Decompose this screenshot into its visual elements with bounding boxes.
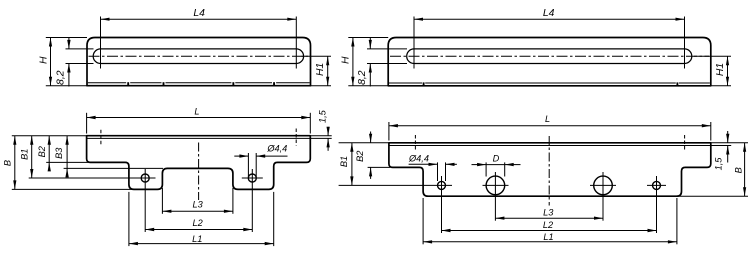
d4.4 dimension extension lines (right part) xyxy=(437,162,439,181)
dimension B1 (top view, left part) xyxy=(31,136,33,178)
plate center line (top view, right part) xyxy=(548,136,550,206)
left hole vertical centerline / L2 extension xyxy=(144,169,146,232)
dimension L4 (left side view) xyxy=(101,18,297,20)
dimension 8,2 (left side view, outside arrows) xyxy=(68,38,70,49)
H1 extension lines (right side view) xyxy=(694,55,731,57)
D hole left vertical centerline / L3 extension xyxy=(494,172,496,221)
L1 extension lines (top view, left part) xyxy=(128,192,130,246)
svg-text:L1: L1 xyxy=(192,234,202,244)
grip slot (right side view) xyxy=(407,49,692,64)
dimension Ø4,4 (top view, left part) xyxy=(234,155,248,157)
D hole right horizontal centerline xyxy=(590,184,616,186)
dimension L4 (right side view) xyxy=(414,18,685,20)
8,2 extension lines (slot top/bottom extended left) xyxy=(66,48,94,50)
B extension line bottom (right part) xyxy=(677,195,748,197)
small hole left (d4.4, right part) xyxy=(438,181,446,189)
L4 extension line right (x=684.5) xyxy=(684,17,686,69)
L3 extension lines (top view, left part) xyxy=(161,188,163,214)
svg-text:1,5: 1,5 xyxy=(317,109,327,123)
B3 extension line (middle bottom edge) xyxy=(64,167,163,169)
tab fold ticks (left side view) xyxy=(127,82,129,86)
L extension lines (top view, right part) xyxy=(388,122,390,141)
dimension D (top view, right part) xyxy=(472,164,487,166)
part body outline (side view, left part) xyxy=(87,38,311,86)
B1 extension line (hole center) xyxy=(29,177,156,179)
8,2 extension lines (right side view) xyxy=(367,48,407,50)
slot end tick right (x=296.2) xyxy=(295,129,297,146)
tab fold ticks (right side view) xyxy=(423,82,425,86)
B1 top extension line (right part) xyxy=(339,142,389,144)
H extension lines (left side view) xyxy=(46,37,87,39)
right hole horizontal centerline xyxy=(242,177,263,179)
H1 extension lines (left side view) xyxy=(302,55,332,57)
plate outline (top view, left part) xyxy=(87,136,311,190)
B1 extension line (hole center, right part) xyxy=(339,184,452,186)
dimension B3 (top view, left part) xyxy=(66,136,68,169)
svg-text:H1: H1 xyxy=(715,63,726,76)
B2 extension line (step bottom, right part) xyxy=(368,166,390,168)
dimension B2 (top view, left part) xyxy=(48,136,50,163)
dimension L (top view, right part) xyxy=(389,125,711,127)
svg-text:L: L xyxy=(545,114,550,124)
svg-text:L1: L1 xyxy=(543,232,553,242)
bottom edge fold line (right side view) xyxy=(389,82,422,84)
L1 extension lines (top view, right part) xyxy=(422,198,424,244)
L extension lines (top view, left part) xyxy=(86,113,88,134)
dimension L3 (top view, right part) xyxy=(495,217,603,219)
dimension L1 (top view, left part) xyxy=(129,243,274,245)
svg-text:8,2: 8,2 xyxy=(56,70,67,85)
svg-text:B2: B2 xyxy=(37,146,47,157)
small hole right (d4.4, right part) xyxy=(653,181,661,189)
svg-text:L2: L2 xyxy=(543,220,553,230)
dimension B (top view, right part) xyxy=(744,143,746,196)
svg-text:H1: H1 xyxy=(315,63,326,76)
1.5 offset edge line (top view, left part) xyxy=(87,137,311,139)
dimension B1 (top view, right part) xyxy=(351,143,353,186)
right hole vertical centerline / L2 extension xyxy=(251,169,253,232)
slot end tick left (x=415.4) xyxy=(414,135,416,151)
svg-text:B1: B1 xyxy=(339,156,349,167)
svg-text:L3: L3 xyxy=(192,200,203,210)
svg-text:B: B xyxy=(3,160,13,166)
d4.4 dimension extension lines (top view, left part) xyxy=(247,153,249,177)
1,5 extension lines (top view, right part) xyxy=(711,142,748,144)
plate center line (top view, left part) xyxy=(198,143,200,201)
dimension 8,2 (right side view, outside arrows) xyxy=(369,38,371,49)
slot centerline (left side view) xyxy=(89,55,309,57)
dimension L3 (top view, left part) xyxy=(162,210,233,212)
slot centerline (right side view) xyxy=(390,55,709,57)
svg-text:B1: B1 xyxy=(20,149,30,160)
H extension lines (right side view) xyxy=(348,37,388,39)
dimension L2 (top view, left part) xyxy=(145,229,252,231)
L4 extension line left (x=100.5) xyxy=(100,17,102,69)
dimension 1,5 (top view, left part, outside arrows) xyxy=(327,127,329,136)
svg-text:L2: L2 xyxy=(192,218,202,228)
plate outline (top view, right part) xyxy=(389,143,711,196)
hole right tab (d4.4) xyxy=(248,174,256,182)
dimension B (top view, left part) xyxy=(14,136,16,190)
svg-text:B3: B3 xyxy=(54,147,64,159)
svg-text:8,2: 8,2 xyxy=(357,70,368,85)
grip slot (left side view) xyxy=(93,49,303,64)
dimension H (left side view) xyxy=(50,38,52,86)
dimension L1 (top view, right part) xyxy=(423,241,677,243)
part body outline (side view, right part) xyxy=(388,38,711,86)
hole D left (right part) xyxy=(486,176,505,195)
L4 extension line right (x=296.3) xyxy=(295,17,297,69)
dimension L2 (top view, right part) xyxy=(442,230,657,232)
svg-text:Ø4,4: Ø4,4 xyxy=(408,154,429,164)
D hole left horizontal centerline xyxy=(483,184,509,186)
bottom edge fold line (left side view) xyxy=(88,82,126,84)
hole D right (right part) xyxy=(594,176,613,195)
svg-text:D: D xyxy=(493,154,500,164)
D dimension extension lines (right part) xyxy=(485,162,487,176)
dimension B2 (top view, right part, outside arrows) xyxy=(370,132,372,143)
dimension 1,5 (top view, right part, outside arrows) xyxy=(727,131,729,143)
svg-text:L: L xyxy=(194,107,199,117)
svg-text:L4: L4 xyxy=(193,8,205,19)
small hole right horizontal centerline xyxy=(647,184,666,186)
B extension lines (top view, left part) xyxy=(12,135,87,137)
1.5 offset edge line (top view, right part) xyxy=(389,145,711,147)
svg-text:L4: L4 xyxy=(543,8,555,19)
svg-text:L3: L3 xyxy=(543,207,554,217)
dimension H1 (right side view) xyxy=(727,56,729,86)
dimension Ø4,4 (top view, right part) xyxy=(409,163,438,165)
dimension H (right side view) xyxy=(352,38,354,86)
svg-text:B2: B2 xyxy=(355,151,365,162)
dimension H1 (left side view) xyxy=(327,56,329,85)
L4 extension line left (x=414) xyxy=(413,17,415,69)
slot end tick right (x=684.6) xyxy=(684,135,686,151)
small hole left vertical centerline / L2 extension xyxy=(441,176,443,233)
svg-text:1,5: 1,5 xyxy=(714,157,724,171)
svg-text:H: H xyxy=(38,56,49,64)
D hole right vertical centerline / L3 extension xyxy=(602,172,604,221)
slot end tick left (x=100.9) xyxy=(100,130,102,146)
1,5 extension lines (top view, left part) xyxy=(310,135,331,137)
dimension L (top view, left part) xyxy=(87,117,311,119)
svg-text:H: H xyxy=(341,56,352,64)
svg-text:B: B xyxy=(734,167,744,173)
B2 extension line (wing bottom) xyxy=(46,161,88,163)
small hole right vertical centerline / L2 extension xyxy=(656,176,658,233)
svg-text:Ø4,4: Ø4,4 xyxy=(266,144,287,154)
hole left tab (d4.4) xyxy=(141,174,149,182)
